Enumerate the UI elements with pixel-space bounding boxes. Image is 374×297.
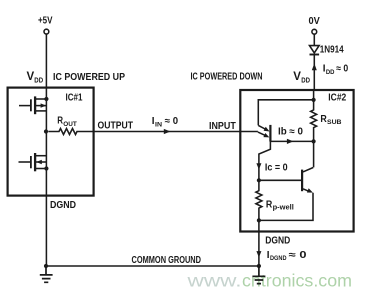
transistor Q1 PMOS channel bar [34,96,36,114]
svg-text:V: V [293,71,301,83]
junction node RSUB bottom [312,139,316,143]
wire diode to IC#2 VDD [313,55,315,90]
diode D1 cathode bar [310,54,320,56]
transistor Q1 PMOS gate lead [19,105,30,107]
svg-text:IC#1: IC#1 [66,92,83,103]
wire COMMON GROUND [46,265,259,267]
svg-text:DGND: DGND [270,255,287,262]
transistor Q2 NMOS drain lead [36,155,46,157]
wire PMOS to node OUT [45,99,47,132]
arrow IDD up [312,63,317,70]
transistor Q3 PNP emitter 1 [258,125,266,129]
svg-text:DGND: DGND [50,200,76,211]
svg-text:SUB: SUB [327,119,342,126]
resistor RPWELL [256,180,262,220]
svg-text:0V: 0V [309,16,321,27]
svg-text:COMMON GROUND: COMMON GROUND [132,255,202,266]
svg-text:Ib ≈ 0: Ib ≈ 0 [278,126,303,137]
svg-text:INPUT: INPUT [209,121,236,132]
transistor Q3 PNP emitter 2 from INPUT [258,132,266,136]
svg-text:V: V [27,71,35,83]
svg-text:IN: IN [155,121,162,128]
wire RSUB node down to NPN collector [313,141,315,167]
junction node Ic / RPWELL top [257,178,261,182]
svg-text:DD: DD [326,69,335,76]
IC#2 box [240,90,353,232]
terminal 0V [312,29,317,34]
arrow IIN on output wire [164,129,171,134]
wire PNP collector down [259,142,271,181]
svg-text:www.: www. [186,270,241,290]
junction node RSUB top [312,98,316,102]
svg-text:DD: DD [34,78,43,85]
wire NPN emitter return [259,193,313,221]
arrow Ic down [256,163,261,169]
svg-text:OUT: OUT [63,121,77,128]
svg-text:OUTPUT: OUTPUT [98,120,134,131]
svg-text:1N914: 1N914 [320,44,344,55]
IC#1 box [8,88,94,196]
wire DGND out of IC#2 [258,220,260,266]
transistor Q3 PNP base bar [269,125,271,142]
wire top rail to PNP emitter [258,100,313,126]
wire VDD rail into box [313,89,315,100]
resistor RSUB [311,100,317,141]
arrow NMOS body [36,160,42,164]
arrow PNP emitter 1 [264,127,270,132]
transistor Q4 NPN base bar [301,170,303,192]
transistor Q1 PMOS drain lead [36,110,46,112]
wire +5V feed to IC#1 [45,34,47,99]
svg-text:≈ 0: ≈ 0 [289,250,307,261]
arrow NPN emitter [307,188,313,192]
transistor Q1 PMOS gate bar [30,99,32,111]
transistor Q4 NPN emitter [303,189,310,192]
transistor Q2 NMOS body lead [36,161,46,163]
wire NMOS source to common ground [45,169,47,267]
terminal +5V [44,29,49,34]
svg-text:+5V: +5V [38,16,53,27]
diode D1 1N914 [310,46,320,53]
wire 0V to diode [313,34,315,45]
junction node ROUT [44,129,48,133]
watermark www.cntronics.com [186,270,352,290]
junction node common ground left [44,264,48,268]
arrow PMOS body [41,103,47,107]
svg-text:Ic = 0: Ic = 0 [265,162,288,173]
svg-text:≈ 0: ≈ 0 [165,116,179,127]
svg-text:IC POWERED UP: IC POWERED UP [53,71,125,83]
wire PNP base to RSUB node [270,140,313,142]
svg-text:IC POWERED DOWN: IC POWERED DOWN [191,71,263,83]
svg-text:IC#2: IC#2 [328,93,346,104]
junction node common ground right [257,264,261,268]
ground symbol left [40,266,53,282]
svg-text:DGND: DGND [265,236,290,247]
transistor Q1 PMOS body lead [36,105,46,107]
transistor Q2 NMOS gate bar [30,156,32,168]
wire node OUT to NMOS [45,132,47,169]
junction node NMOS source [44,166,48,170]
transistor Q2 NMOS gate lead [19,161,31,163]
wire NPN base [259,179,301,181]
wire OUTPUT to INPUT [94,131,258,133]
arrow PNP emitter 2 [263,133,269,137]
junction node RPWELL bottom [257,218,261,222]
arrow IDGND down [256,251,261,257]
svg-text:DD: DD [301,78,310,85]
transistor Q2 NMOS channel bar [34,153,36,171]
svg-text:p-well: p-well [273,203,294,212]
transistor Q4 NPN collector [303,168,313,172]
resistor ROUT [48,129,94,135]
svg-text:≈ 0: ≈ 0 [336,64,348,75]
transistor Q1 PMOS source lead [36,98,46,100]
arrow Ib right [287,139,294,144]
ground symbol right [252,266,265,284]
transistor Q2 NMOS source lead [36,168,46,170]
junction node PMOS source / VDD [44,97,48,101]
